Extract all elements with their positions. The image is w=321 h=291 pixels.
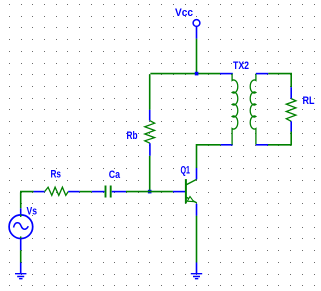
node junction top [195, 72, 199, 76]
source Vs circle [9, 215, 33, 239]
transformer TX2 secondary top pin [256, 73, 268, 75]
svg-text:Q1: Q1 [181, 165, 191, 177]
transistor Q1 collector diagonal [186, 179, 197, 185]
wire Vs corner to Rs [20, 192, 34, 209]
ground left symbol [15, 274, 26, 279]
svg-text:RL: RL [303, 95, 315, 107]
svg-text:TX2: TX2 [233, 60, 249, 72]
wire Vs to ground [20, 250, 22, 262]
wire secondary top to RL [268, 74, 292, 88]
transformer TX2 primary top pin [220, 73, 233, 75]
resistor Rb zigzag [145, 121, 155, 144]
source Vs top pin [20, 208, 22, 215]
resistor Rs zigzag [45, 187, 69, 195]
transistor Q1 collector pin [196, 168, 198, 179]
transistor Q1 emitter pin [196, 204, 198, 216]
source Vs top pin mark [20, 215, 22, 218]
resistor RL zigzag [286, 99, 296, 122]
resistor Rb pin1 [149, 110, 151, 121]
transistor Q1 emitter arrow [187, 197, 193, 202]
transistor Q1 emitter diagonal [186, 197, 197, 203]
svg-text:Ca: Ca [109, 169, 121, 181]
resistor RL pin1 [290, 87, 292, 98]
capacitor Ca pin2 [112, 191, 126, 193]
wire Rs to Ca [80, 191, 92, 193]
source Vs sine wave [14, 223, 29, 229]
transformer TX2 secondary winding [250, 74, 256, 145]
capacitor Ca plates [106, 186, 111, 198]
svg-text:Rs: Rs [51, 169, 62, 181]
wire Rb to base rail [149, 156, 151, 192]
capacitor Ca pin1 [92, 191, 105, 193]
ground middle pin [196, 263, 198, 274]
wire Ca to base pin [126, 191, 173, 193]
wire Vcc vertical [196, 39, 198, 75]
power terminal Vcc pin [196, 27, 198, 39]
resistor Rs pin2 [68, 191, 80, 193]
ground middle symbol [191, 274, 202, 279]
svg-text:Vcc: Vcc [175, 7, 193, 19]
svg-text:Vs: Vs [27, 206, 38, 218]
wire secondary bottom to RL [268, 132, 292, 146]
resistor RL pin2 [290, 121, 292, 131]
power terminal Vcc circle [193, 20, 200, 27]
resistor Rs pin1 [34, 191, 45, 193]
wire collector to primary bottom [196, 144, 221, 168]
wire top rail [150, 74, 220, 110]
node junction base rail [148, 190, 152, 194]
transformer TX2 secondary bottom pin [256, 144, 268, 146]
transistor Q1 base bar [185, 179, 187, 203]
source Vs bottom pin mark [20, 236, 22, 239]
wire emitter to ground [196, 216, 198, 263]
source Vs bottom pin [20, 238, 22, 250]
transformer TX2 primary bottom pin [221, 144, 233, 146]
svg-text:Rb: Rb [127, 130, 138, 142]
resistor Rb pin2 [149, 143, 151, 156]
transistor Q1 base pin [173, 191, 185, 193]
ground left pin [20, 263, 22, 274]
transformer TX2 primary winding [232, 74, 238, 145]
